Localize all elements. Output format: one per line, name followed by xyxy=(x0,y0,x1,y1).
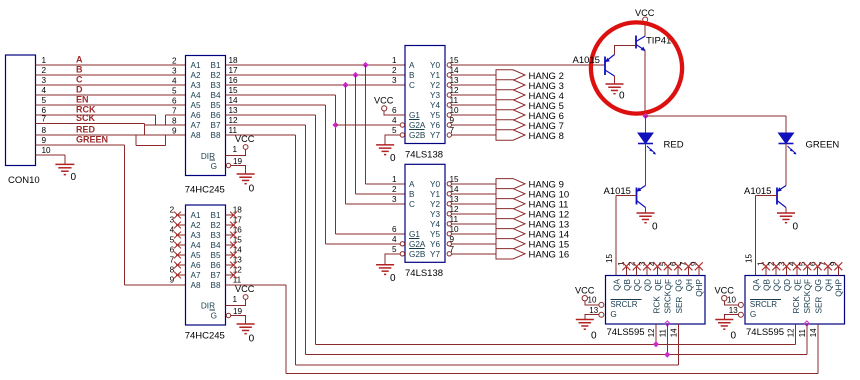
U3 output bubble Y0 xyxy=(447,63,451,67)
U1 G pin bubble xyxy=(226,163,230,167)
svg-text:A4: A4 xyxy=(191,241,201,250)
U4 output bubble Y7 xyxy=(447,252,451,256)
transistor Q2 A1015 base bar xyxy=(636,188,638,205)
port HANG 4 flag xyxy=(496,90,525,100)
svg-text:10: 10 xyxy=(727,296,736,305)
svg-text:HANG 8: HANG 8 xyxy=(529,131,564,142)
U2 B7 X cross xyxy=(230,272,237,279)
wire U1 B7 xyxy=(226,124,306,126)
ground U2 xyxy=(237,323,255,325)
svg-text:12: 12 xyxy=(450,86,460,95)
svg-text:15: 15 xyxy=(745,254,754,263)
Q4 collector xyxy=(636,36,645,42)
U6 SRCLR bubble xyxy=(738,302,743,307)
svg-text:QG: QG xyxy=(814,279,823,292)
svg-text:3: 3 xyxy=(42,76,47,85)
svg-text:0: 0 xyxy=(71,172,77,183)
svg-text:QE: QE xyxy=(793,278,802,290)
svg-text:RED: RED xyxy=(664,140,684,151)
svg-text:0: 0 xyxy=(793,222,799,233)
U3 output bubble Y5 xyxy=(447,113,451,117)
svg-text:0: 0 xyxy=(731,330,737,341)
svg-text:A5: A5 xyxy=(191,101,201,110)
svg-text:B6: B6 xyxy=(210,111,220,120)
ground U4 xyxy=(376,264,394,266)
U3 output bubble Y2 xyxy=(447,83,451,87)
wire loop right xyxy=(165,135,167,145)
svg-text:A1: A1 xyxy=(191,211,201,220)
Q1 collector xyxy=(605,70,615,76)
wire U1 B1 to U3 input xyxy=(226,64,406,66)
wire U3 G2B to ground xyxy=(385,135,400,145)
Q3 emitter with arrow xyxy=(777,186,786,192)
LED D2 triangle xyxy=(779,133,794,144)
U3 output bubble Y3 xyxy=(447,93,451,97)
svg-text:QC: QC xyxy=(633,279,642,291)
U5 SRCLR overline xyxy=(610,299,641,301)
U2 B4 no-connect stub xyxy=(226,244,235,246)
svg-text:5: 5 xyxy=(42,96,47,105)
port HANG 11 flag xyxy=(496,199,525,209)
register U6 74LS595 body xyxy=(745,276,845,325)
svg-text:16: 16 xyxy=(233,226,243,235)
wire B1 vertical xyxy=(365,65,367,184)
U2 A2 no-connect stub xyxy=(176,224,186,226)
svg-text:4: 4 xyxy=(392,235,397,244)
svg-text:0: 0 xyxy=(619,91,625,102)
U3 G1 underline xyxy=(409,119,420,121)
svg-text:Y4: Y4 xyxy=(430,220,440,229)
U3 output bubble Y7 xyxy=(447,133,451,137)
VCC pin circle U3 xyxy=(382,106,387,111)
wire GREEN segment xyxy=(36,144,125,146)
svg-text:G1: G1 xyxy=(409,111,420,120)
svg-text:GREEN: GREEN xyxy=(76,135,108,145)
wire junction to GREEN branch xyxy=(646,115,787,117)
U6 QF X cross xyxy=(803,262,811,270)
ground Q2 xyxy=(636,212,654,214)
U6 SRCK stub xyxy=(806,324,808,355)
U4 output bubble Y2 xyxy=(447,202,451,206)
svg-text:6: 6 xyxy=(170,246,175,255)
svg-text:QB: QB xyxy=(762,278,771,290)
svg-text:QA: QA xyxy=(612,278,621,290)
VCC pin circle U6 xyxy=(722,296,727,301)
svg-text:2: 2 xyxy=(392,185,397,194)
svg-text:9: 9 xyxy=(450,235,455,244)
svg-text:QHP: QHP xyxy=(835,278,844,296)
svg-text:A6: A6 xyxy=(191,261,201,270)
U5 QH X cross xyxy=(684,262,692,270)
svg-text:0: 0 xyxy=(390,273,396,284)
wire U1 B3 to U3 input xyxy=(226,84,406,86)
svg-text:10: 10 xyxy=(588,296,597,305)
port HANG 8 flag xyxy=(496,130,525,140)
U2 A5 X cross xyxy=(174,252,181,259)
svg-text:B2: B2 xyxy=(210,71,220,80)
svg-text:B7: B7 xyxy=(210,121,220,130)
wire B1 to U4 input xyxy=(366,183,406,185)
U2 B5 no-connect stub xyxy=(226,254,235,256)
U2 B7 no-connect stub xyxy=(226,274,235,276)
U2 B6 no-connect stub xyxy=(226,264,235,266)
U2 A1 no-connect stub xyxy=(176,214,186,216)
U6 QHP X cross xyxy=(834,262,842,270)
svg-text:74HC245: 74HC245 xyxy=(185,331,225,342)
svg-text:C: C xyxy=(409,81,415,90)
U4 G1 underline xyxy=(409,237,420,239)
U4 output bubble Y6 xyxy=(447,242,451,246)
svg-text:12: 12 xyxy=(647,328,656,337)
svg-text:A8: A8 xyxy=(191,281,201,290)
ground U3 xyxy=(376,144,394,146)
svg-text:0: 0 xyxy=(249,333,255,344)
buffer U2 74HC245 body xyxy=(186,205,226,325)
wire U4 Y3 to HANG 12 xyxy=(452,213,497,215)
wire U4 Y1 to HANG 10 xyxy=(452,193,497,195)
svg-text:11: 11 xyxy=(450,215,459,224)
svg-text:14: 14 xyxy=(670,328,679,337)
annotation red circle xyxy=(591,22,682,113)
wire U1 B8 xyxy=(226,134,296,136)
U5 QE stub xyxy=(656,266,658,276)
svg-text:QD: QD xyxy=(643,279,652,291)
U2 A5 no-connect stub xyxy=(176,254,186,256)
port HANG 13 flag xyxy=(496,219,525,229)
svg-text:G: G xyxy=(750,310,756,319)
U2 B2 X cross xyxy=(230,222,237,229)
svg-text:13: 13 xyxy=(729,306,738,315)
svg-text:Y1: Y1 xyxy=(430,71,440,80)
svg-text:B7: B7 xyxy=(210,271,220,280)
wire Q1 emitter up xyxy=(615,46,637,55)
svg-text:QG: QG xyxy=(675,279,684,292)
wire Q2 base xyxy=(616,195,637,197)
svg-text:SRCLR: SRCLR xyxy=(610,300,637,309)
U6 QH X cross xyxy=(824,262,832,270)
wire Q3 base down to U6 QA xyxy=(755,196,757,276)
svg-text:8: 8 xyxy=(170,266,175,275)
U5 QC stub xyxy=(636,266,638,276)
U6 QHP stub xyxy=(837,266,839,276)
svg-text:VCC: VCC xyxy=(635,8,655,18)
U6 QC X cross xyxy=(772,262,780,270)
svg-text:2: 2 xyxy=(42,66,47,75)
svg-text:G2B: G2B xyxy=(409,250,426,259)
svg-text:SER: SER xyxy=(675,297,684,314)
U4 output bubble Y4 xyxy=(447,222,451,226)
wire SCK to U1 A7 pin8 xyxy=(145,124,186,126)
U5 QG X cross xyxy=(674,262,682,270)
port HANG 5 flag xyxy=(496,100,525,110)
U6 QC stub xyxy=(775,266,777,276)
svg-text:1: 1 xyxy=(233,145,238,154)
junction B4 at U3 G2A xyxy=(332,122,338,128)
svg-text:14: 14 xyxy=(229,96,239,105)
svg-text:QD: QD xyxy=(783,279,792,291)
svg-text:A3: A3 xyxy=(191,231,201,240)
svg-text:7: 7 xyxy=(450,245,455,254)
wire SCK segment xyxy=(36,123,145,125)
svg-text:QA: QA xyxy=(752,278,761,290)
svg-text:13: 13 xyxy=(233,256,243,265)
junction LED branch xyxy=(642,113,648,119)
svg-text:Y5: Y5 xyxy=(430,111,440,120)
wire Q3 collector down xyxy=(785,208,787,214)
svg-text:0: 0 xyxy=(249,183,255,194)
U2 A3 no-connect stub xyxy=(176,234,186,236)
wire U4 Y5 to HANG 14 xyxy=(452,233,497,235)
wire U3 Y3 to HANG 4 xyxy=(452,94,497,96)
svg-text:B: B xyxy=(76,65,83,75)
svg-text:Y4: Y4 xyxy=(430,101,440,110)
svg-text:EN: EN xyxy=(76,95,89,105)
port HANG 2 flag xyxy=(496,70,525,80)
ground Q1 xyxy=(605,83,623,85)
U4 output bubble Y3 xyxy=(447,212,451,216)
wire B CON10 pin2 to U1 A2 xyxy=(36,74,186,76)
U4 output bubble Y1 xyxy=(447,192,451,196)
wire U3 Y5 to HANG 6 xyxy=(452,114,497,116)
ground Q3 xyxy=(777,212,795,214)
junction B2 xyxy=(352,72,358,78)
svg-text:A5: A5 xyxy=(191,251,201,260)
svg-text:B2: B2 xyxy=(210,221,220,230)
wire RCK under label xyxy=(156,124,166,126)
U5 QD X cross xyxy=(643,262,651,270)
svg-text:RED: RED xyxy=(76,125,96,135)
svg-text:3: 3 xyxy=(170,216,175,225)
svg-text:7: 7 xyxy=(450,126,455,135)
svg-text:QH: QH xyxy=(824,279,833,291)
svg-text:QB: QB xyxy=(623,278,632,290)
wire G to ground U5 xyxy=(585,315,599,320)
wire D2 to Q3 xyxy=(785,144,787,186)
svg-text:12: 12 xyxy=(450,205,460,214)
svg-text:7: 7 xyxy=(42,115,47,124)
U4 G2B bubble xyxy=(400,252,404,256)
svg-text:A: A xyxy=(409,61,415,70)
svg-text:Y2: Y2 xyxy=(430,200,440,209)
U2 B1 X cross xyxy=(230,212,237,219)
wire U1 B6 xyxy=(226,114,316,116)
transistor Q1 A1015 base bar xyxy=(604,57,606,76)
svg-text:18: 18 xyxy=(229,56,239,65)
wire B2 vertical xyxy=(355,75,357,194)
wire RCK down xyxy=(155,115,157,125)
svg-text:B5: B5 xyxy=(210,251,220,260)
svg-text:14: 14 xyxy=(233,246,243,255)
svg-text:A8: A8 xyxy=(191,131,201,140)
U5 RCK stub xyxy=(655,324,657,344)
svg-text:15: 15 xyxy=(605,254,614,263)
U6 QB stub xyxy=(765,266,767,276)
U2 A7 no-connect stub xyxy=(176,274,186,276)
svg-text:1: 1 xyxy=(392,175,397,184)
U5 SRCK stub xyxy=(666,324,668,355)
wire B3 to U4 input xyxy=(346,203,406,205)
wire VCC to DIR U2 xyxy=(226,299,246,305)
svg-text:QHP: QHP xyxy=(695,278,704,296)
svg-text:10: 10 xyxy=(42,146,52,155)
svg-text:11: 11 xyxy=(658,328,667,337)
svg-text:SRCLR: SRCLR xyxy=(750,300,777,309)
wire B5 to U4 G2A xyxy=(326,243,400,245)
wire VCC to SRCLR U6 xyxy=(724,301,738,305)
svg-text:12: 12 xyxy=(229,116,239,125)
wire U3 Y0 to Q1 base xyxy=(452,64,606,66)
U4 G2A bubble xyxy=(400,242,404,246)
svg-text:GREEN: GREEN xyxy=(806,140,840,151)
svg-text:B3: B3 xyxy=(210,231,220,240)
svg-text:14: 14 xyxy=(450,66,460,75)
svg-text:Y6: Y6 xyxy=(430,121,440,130)
svg-text:8: 8 xyxy=(172,117,177,126)
svg-text:B4: B4 xyxy=(210,241,220,250)
svg-text:A1015: A1015 xyxy=(573,55,600,66)
LED D2 light arrows xyxy=(788,146,796,154)
svg-text:1: 1 xyxy=(233,295,238,304)
transistor Q3 A1015 base bar xyxy=(776,188,778,205)
svg-text:A7: A7 xyxy=(191,271,201,280)
wire G to ground U6 xyxy=(724,315,738,320)
wire D CON10 pin4 to U1 A4 xyxy=(36,94,186,96)
LED D1 cathode bar xyxy=(638,143,653,145)
port HANG 14 flag xyxy=(496,229,525,239)
port HANG 3 flag xyxy=(496,80,525,90)
svg-text:5: 5 xyxy=(172,87,177,96)
wire U1 B4 xyxy=(226,94,336,96)
svg-text:8: 8 xyxy=(42,126,47,135)
svg-text:QF: QF xyxy=(804,279,813,290)
svg-text:15: 15 xyxy=(450,175,460,184)
U2 A6 X cross xyxy=(174,262,181,269)
wire U4 Y7 to HANG 16 xyxy=(452,253,497,255)
U5 QF stub xyxy=(667,266,669,276)
wire U2 B8 out xyxy=(226,284,286,286)
svg-text:QC: QC xyxy=(773,279,782,291)
svg-text:7: 7 xyxy=(172,107,177,116)
U6 QE stub xyxy=(796,266,798,276)
svg-text:13: 13 xyxy=(450,76,460,85)
wire U3 Y7 to HANG 8 xyxy=(452,134,497,136)
svg-text:G: G xyxy=(211,162,217,171)
svg-text:6: 6 xyxy=(392,225,397,234)
U4 output bubble Y0 xyxy=(447,182,451,186)
wire B7 vertical xyxy=(305,125,307,355)
U5 QH stub xyxy=(687,266,689,276)
svg-text:15: 15 xyxy=(229,86,239,95)
transistor Q4 TIP41 base bar xyxy=(635,36,637,49)
Q1 emitter with arrow xyxy=(605,55,615,63)
wire U4 G2B to ground xyxy=(385,254,400,265)
U6 QG X cross xyxy=(814,262,822,270)
VCC pin circle U1 xyxy=(243,145,248,150)
wire SRCK bus xyxy=(306,354,807,356)
svg-text:QF: QF xyxy=(664,279,673,290)
U4 G2A underline xyxy=(409,247,425,249)
wire U2 B8 vertical xyxy=(285,285,287,374)
svg-text:74LS595: 74LS595 xyxy=(746,327,784,338)
svg-text:G2A: G2A xyxy=(409,121,426,130)
svg-text:A1: A1 xyxy=(191,61,201,70)
U5 QC X cross xyxy=(633,262,641,270)
wire GREEN vertical to U2 xyxy=(124,145,126,285)
svg-text:4: 4 xyxy=(172,77,177,86)
svg-text:3: 3 xyxy=(392,76,397,85)
U6 SRCK pin diamond xyxy=(804,321,809,326)
U2 A6 no-connect stub xyxy=(176,264,186,266)
svg-text:B6: B6 xyxy=(210,261,220,270)
LED D1 light arrows xyxy=(647,146,655,154)
U2 G pin bubble xyxy=(226,313,230,317)
svg-text:11: 11 xyxy=(450,96,459,105)
wire Q2 base down to U5 QA xyxy=(615,196,617,276)
LED D2 cathode bar xyxy=(779,143,794,145)
svg-text:B8: B8 xyxy=(210,281,220,290)
svg-text:B1: B1 xyxy=(210,61,220,70)
wire SER2 bus xyxy=(286,373,818,375)
wire U3 Y6 to HANG 7 xyxy=(452,124,497,126)
U2 B3 X cross xyxy=(230,232,237,239)
Q4 emitter with arrow xyxy=(636,45,645,51)
svg-text:A7: A7 xyxy=(191,121,201,130)
svg-text:9: 9 xyxy=(170,276,175,285)
svg-text:18: 18 xyxy=(233,206,243,215)
U1 DIR underline xyxy=(210,159,216,161)
wire A CON10 pin1 to U1 A1 xyxy=(36,64,186,66)
svg-text:HANG 16: HANG 16 xyxy=(529,250,570,261)
svg-text:74HC245: 74HC245 xyxy=(185,185,225,196)
wire SCK jog xyxy=(144,124,146,136)
wire RCK into U1 A6 pin7 xyxy=(166,114,186,116)
svg-text:6: 6 xyxy=(392,106,397,115)
svg-text:4: 4 xyxy=(42,86,47,95)
U2 B2 no-connect stub xyxy=(226,224,235,226)
U2 A3 X cross xyxy=(174,232,181,239)
svg-text:14: 14 xyxy=(450,185,460,194)
Q2 emitter with arrow xyxy=(637,186,646,192)
U5 SER stub xyxy=(678,324,680,365)
port HANG 10 flag xyxy=(496,189,525,199)
svg-text:B1: B1 xyxy=(210,211,220,220)
svg-text:19: 19 xyxy=(233,157,243,166)
U4 output bubble Y5 xyxy=(447,232,451,236)
wire CON10 pin10 xyxy=(36,154,65,156)
U2 A2 X cross xyxy=(174,222,181,229)
wire U3 Y2 to HANG 3 xyxy=(452,84,497,86)
svg-text:A3: A3 xyxy=(191,81,201,90)
wire Q4 emitter down xyxy=(644,51,646,117)
svg-text:A6: A6 xyxy=(191,111,201,120)
wire U1 B5 xyxy=(226,104,326,106)
svg-text:QE: QE xyxy=(654,278,663,290)
svg-text:0: 0 xyxy=(390,153,396,164)
wire SER1 bus xyxy=(296,364,679,366)
svg-text:DIR: DIR xyxy=(201,152,215,161)
U6 QE X cross xyxy=(793,262,801,270)
svg-text:2: 2 xyxy=(392,66,397,75)
svg-text:RCK: RCK xyxy=(652,296,661,314)
svg-text:10: 10 xyxy=(450,225,460,234)
U2 B5 X cross xyxy=(230,252,237,259)
svg-text:7: 7 xyxy=(170,256,175,265)
connector CON10 body xyxy=(6,55,36,166)
svg-text:0: 0 xyxy=(652,222,658,233)
Q2 collector xyxy=(637,201,646,208)
U6 G bubble xyxy=(738,312,743,317)
U5 SRCLR bubble xyxy=(599,302,604,307)
